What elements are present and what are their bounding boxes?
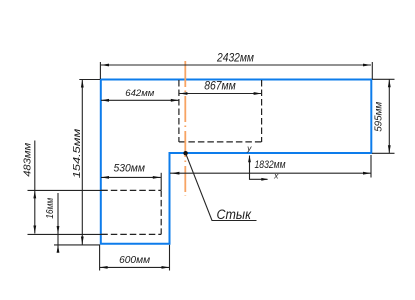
svg-text:x: x <box>273 171 279 181</box>
extension line: left end of 600мм <box>99 245 101 271</box>
svg-text:2432мм: 2432мм <box>216 51 254 64</box>
extension line: bottom edge leftward (for 154.5мм / 16мм) <box>54 244 100 246</box>
node: seam junction dot on step edge <box>183 151 187 155</box>
cutout rectangle (lower, dashed) <box>101 190 161 234</box>
svg-text:154.5мм: 154.5мм <box>72 129 83 179</box>
extension line: lower-right corner rightward (for 595мм) <box>372 152 395 154</box>
extension line: top edge leftward (for 154.5мм) <box>79 79 100 81</box>
svg-text:Сmык: Сmык <box>217 207 252 222</box>
dimension 154.5мм (left, vertical, full height of top edge to bottom) <box>72 80 84 245</box>
svg-text:642мм: 642мм <box>125 87 155 98</box>
svg-text:595мм: 595мм <box>373 102 384 132</box>
svg-text:867мм: 867мм <box>204 79 236 92</box>
svg-text:y: y <box>246 143 252 153</box>
svg-text:530мм: 530мм <box>113 163 145 175</box>
dimension 483мм (left, vertical) <box>22 141 36 234</box>
svg-text:1832мм: 1832мм <box>255 159 286 171</box>
dimension 1832мм (step to right edge) <box>170 159 371 175</box>
dimension 16мм (left, vertical, arrows outside) <box>45 193 59 253</box>
coordinate origin marker with X and Y axes <box>246 143 279 181</box>
dimension 600мм (bottom section width) <box>100 255 170 269</box>
svg-text:600мм: 600мм <box>119 255 150 266</box>
dimension 2432мм (overall width, top) <box>101 51 371 66</box>
panel outline (blue L-shaped worktop contour) <box>101 80 372 244</box>
leader line to seam label <box>186 153 257 220</box>
dimension 530мм (lower cutout width) <box>101 163 161 179</box>
extension line: top-right corner rightward (for 595мм) <box>372 78 395 80</box>
extension line: right end of 530мм <box>160 173 162 190</box>
extension line: left end of 2432мм <box>99 62 101 79</box>
dimension 642мм (left edge to upper cutout) <box>101 87 179 102</box>
dimension 595мм (top section depth, right side) <box>373 79 390 153</box>
extension line: upper cutout top (for 483мм) <box>28 189 108 191</box>
dimension 867мм (upper cutout width) <box>179 79 261 95</box>
seam centerline (orange dash-dot) <box>184 61 186 196</box>
svg-text:483мм: 483мм <box>22 143 33 177</box>
extension line: right end of 600мм <box>169 245 171 271</box>
extension line: lower cutout bottom (for 483мм / 16мм) <box>28 233 108 235</box>
cutout rectangle (upper, dashed) <box>179 80 262 142</box>
extension line: right end of 2432мм <box>371 62 373 79</box>
svg-text:16мм: 16мм <box>45 198 56 219</box>
extension line: right end of 1832мм <box>370 155 372 178</box>
